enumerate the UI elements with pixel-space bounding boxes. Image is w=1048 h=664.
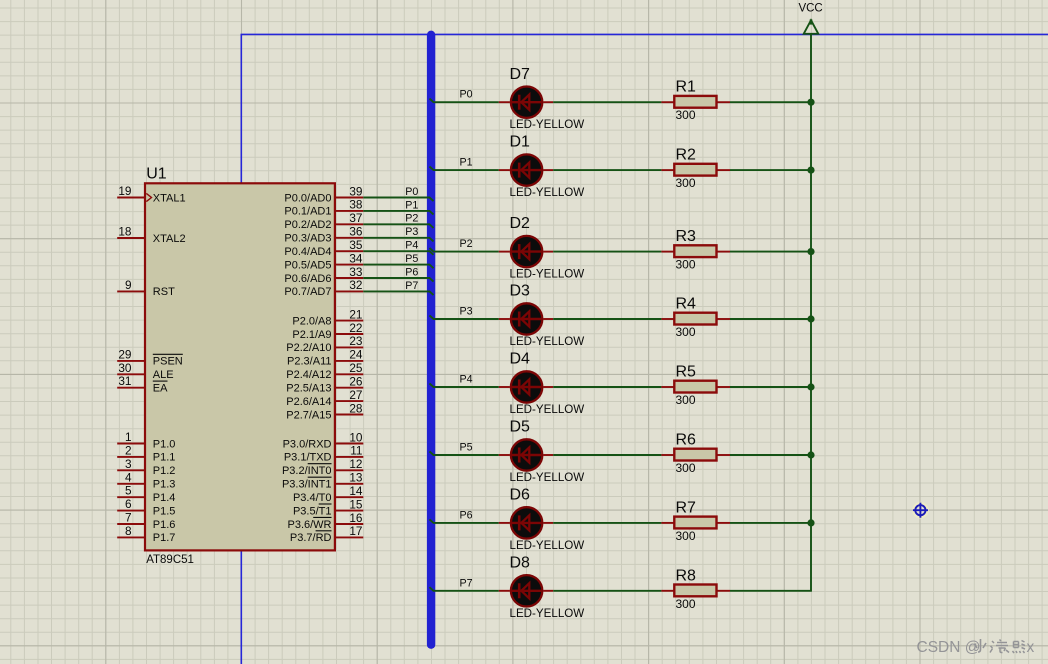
svg-text:P2: P2 (460, 238, 473, 250)
svg-text:22: 22 (349, 321, 362, 335)
pin 18 (XTAL2) (117, 225, 185, 245)
svg-text:R7: R7 (676, 499, 697, 516)
svg-text:P0.3/AD3: P0.3/AD3 (284, 233, 331, 245)
junction dot P1 rail (807, 167, 814, 174)
svg-text:EA: EA (153, 383, 168, 395)
svg-text:31: 31 (118, 374, 131, 388)
svg-text:P3.2/INT0: P3.2/INT0 (282, 465, 332, 477)
svg-text:D4: D4 (510, 351, 531, 368)
pin 35 (P0.4/AD4) (284, 238, 363, 258)
svg-text:P1.7: P1.7 (153, 532, 176, 544)
svg-text:LED-YELLOW: LED-YELLOW (510, 539, 585, 552)
power VCC (798, 3, 822, 34)
svg-text:P5: P5 (405, 253, 418, 265)
svg-text:CSDN @: CSDN @ (917, 639, 981, 656)
pin 16 (P3.6/WR) (287, 511, 363, 531)
svg-text:XTAL2: XTAL2 (153, 233, 186, 245)
LED D3 (499, 283, 584, 348)
svg-text:D3: D3 (510, 283, 531, 300)
wire P7 pin 32 to bus (363, 280, 433, 295)
wire P4 pin 35 to bus (363, 240, 433, 255)
svg-text:300: 300 (676, 393, 696, 407)
svg-text:2: 2 (125, 443, 132, 457)
pin 39 (P0.0/AD0) (284, 184, 363, 204)
svg-text:26: 26 (349, 375, 363, 389)
svg-text:15: 15 (349, 497, 363, 511)
wire D4 to R5 (553, 386, 661, 388)
svg-text:28: 28 (349, 401, 363, 415)
svg-text:P1.3: P1.3 (153, 479, 176, 491)
svg-text:D7: D7 (510, 66, 531, 83)
svg-text:P5: P5 (460, 442, 473, 454)
svg-text:37: 37 (349, 211, 362, 225)
svg-text:P0: P0 (405, 186, 418, 198)
svg-text:16: 16 (349, 511, 363, 525)
pin 21 (P2.0/A8) (292, 307, 363, 327)
wire P5 pin 34 to bus (363, 253, 433, 268)
svg-text:4: 4 (125, 470, 132, 484)
resistor R4 300 (661, 296, 730, 340)
svg-text:P3.4/T0: P3.4/T0 (293, 492, 332, 504)
svg-text:LED-YELLOW: LED-YELLOW (510, 607, 585, 620)
pin 15 (P3.5/T1) (293, 497, 363, 517)
svg-text:7: 7 (125, 511, 132, 525)
junction dot P5 rail (807, 451, 814, 458)
pin 34 (P0.5/AD5) (284, 251, 363, 271)
svg-text:11: 11 (350, 444, 362, 458)
svg-text:P7: P7 (460, 577, 473, 589)
svg-text:R8: R8 (676, 567, 697, 584)
svg-text:P1.6: P1.6 (153, 519, 176, 531)
svg-text:U1: U1 (146, 166, 167, 183)
svg-text:1: 1 (125, 430, 132, 444)
svg-text:32: 32 (349, 278, 362, 292)
svg-text:P1.5: P1.5 (153, 505, 176, 517)
svg-text:300: 300 (676, 258, 696, 272)
svg-text:6: 6 (125, 497, 132, 511)
pin 8 (P1.7) (117, 524, 175, 544)
pin 38 (P0.1/AD1) (284, 198, 363, 218)
svg-text:23: 23 (349, 334, 363, 348)
svg-text:P3.7/RD: P3.7/RD (290, 532, 332, 544)
wire P0 pin 39 to bus (363, 186, 433, 201)
wire D5 to R6 (553, 454, 661, 456)
svg-text:14: 14 (349, 484, 363, 498)
svg-text:R1: R1 (676, 79, 697, 96)
svg-text:9: 9 (125, 278, 132, 292)
watermark (917, 639, 1035, 656)
svg-text:18: 18 (118, 225, 132, 239)
wire D3 to R4 (553, 318, 661, 320)
svg-text:RST: RST (153, 286, 175, 298)
wire P5 bus to D5 (430, 442, 499, 456)
svg-text:D6: D6 (510, 487, 531, 504)
pin 28 (P2.7/A15) (286, 401, 363, 421)
svg-text:R2: R2 (676, 147, 697, 164)
svg-text:P1.0: P1.0 (153, 438, 176, 450)
svg-text:P3: P3 (460, 306, 473, 318)
svg-text:25: 25 (349, 361, 363, 375)
svg-text:D1: D1 (510, 134, 531, 151)
svg-text:P4: P4 (405, 240, 418, 252)
svg-text:P0.6/AD6: P0.6/AD6 (284, 273, 331, 285)
bus P0..P7 (427, 31, 435, 649)
pin 6 (P1.5) (117, 497, 175, 517)
svg-text:P1.2: P1.2 (153, 465, 176, 477)
svg-text:P3.1/TXD: P3.1/TXD (284, 452, 332, 464)
svg-text:P0.1/AD1: P0.1/AD1 (284, 206, 331, 218)
wire D7 to R1 (553, 101, 661, 103)
wire D1 to R2 (553, 169, 661, 171)
pin 5 (P1.4) (117, 484, 175, 504)
svg-text:10: 10 (349, 430, 363, 444)
junction dot P6 rail (807, 519, 814, 526)
pin 37 (P0.2/AD2) (284, 211, 363, 231)
svg-text:R4: R4 (676, 296, 697, 313)
svg-text:D2: D2 (510, 215, 531, 232)
svg-text:300: 300 (676, 176, 696, 190)
resistor R1 300 (661, 79, 730, 123)
pin 1 (P1.0) (117, 430, 175, 450)
svg-text:AT89C51: AT89C51 (146, 554, 194, 566)
wire P6 bus to D6 (430, 509, 499, 523)
pin 2 (P1.1) (117, 443, 175, 463)
svg-text:x: x (1027, 639, 1035, 656)
svg-text:P0.5/AD5: P0.5/AD5 (284, 259, 331, 271)
wire R5 to VCC rail (730, 386, 812, 388)
svg-text:P2.2/A10: P2.2/A10 (286, 342, 331, 354)
svg-text:P1: P1 (405, 199, 418, 211)
wire D8 to R8 (553, 590, 661, 592)
svg-text:P2.7/A15: P2.7/A15 (286, 409, 331, 421)
svg-text:P3: P3 (405, 226, 418, 238)
svg-text:D5: D5 (510, 419, 531, 436)
svg-text:R5: R5 (676, 364, 697, 381)
wire D2 to R3 (553, 251, 661, 253)
resistor R5 300 (661, 364, 730, 408)
pin 10 (P3.0/RXD) (283, 430, 364, 450)
svg-text:33: 33 (349, 265, 363, 279)
resistor R2 300 (661, 147, 730, 191)
wire R2 to VCC rail (730, 169, 812, 171)
svg-text:LED-YELLOW: LED-YELLOW (510, 335, 585, 348)
svg-text:P2.5/A13: P2.5/A13 (286, 383, 331, 395)
wire P0 bus to D7 (430, 89, 499, 103)
pin 9 (RST) (117, 278, 175, 298)
LED D4 (499, 351, 584, 416)
svg-text:29: 29 (118, 347, 131, 361)
svg-text:300: 300 (676, 108, 696, 122)
svg-text:300: 300 (676, 529, 696, 543)
svg-text:17: 17 (349, 524, 362, 538)
pin 32 (P0.7/AD7) (284, 278, 363, 298)
pin 12 (P3.2/INT0) (282, 457, 363, 477)
resistor R3 300 (661, 228, 730, 272)
svg-text:P6: P6 (405, 266, 418, 278)
wire R4 to VCC rail (730, 318, 812, 320)
svg-text:P4: P4 (460, 374, 473, 386)
pin 36 (P0.3/AD3) (284, 225, 363, 245)
svg-text:LED-YELLOW: LED-YELLOW (510, 471, 585, 484)
wire P4 bus to D4 (430, 374, 499, 388)
wire VCC rail (810, 34, 812, 591)
wire R6 to VCC rail (730, 454, 812, 456)
svg-text:P2: P2 (405, 213, 418, 225)
origin marker (913, 503, 928, 518)
svg-text:P3.6/WR: P3.6/WR (287, 519, 331, 531)
wire R1 to VCC rail (730, 101, 812, 103)
svg-text:38: 38 (349, 198, 363, 212)
svg-text:P0: P0 (460, 89, 473, 101)
LED D5 (499, 419, 584, 484)
svg-text:P2.3/A11: P2.3/A11 (287, 356, 331, 368)
svg-text:P2.4/A12: P2.4/A12 (286, 369, 331, 381)
svg-text:27: 27 (349, 388, 362, 402)
svg-text:35: 35 (349, 238, 363, 252)
pin 11 (P3.1/TXD) (284, 444, 363, 464)
wire P3 bus to D3 (430, 306, 499, 320)
IC U1 AT89C51 body (145, 166, 335, 567)
pin 25 (P2.4/A12) (286, 361, 363, 381)
junction dot P0 rail (807, 99, 814, 106)
svg-text:P1.1: P1.1 (153, 452, 176, 464)
LED D2 (499, 215, 584, 280)
svg-text:XTAL1: XTAL1 (153, 192, 186, 204)
pin 33 (P0.6/AD6) (284, 265, 363, 285)
pin 30 (ALE) (117, 361, 173, 381)
resistor R6 300 (661, 432, 730, 476)
svg-text:R6: R6 (676, 432, 697, 449)
wire P1 pin 38 to bus (363, 199, 433, 214)
pin 3 (P1.2) (117, 457, 175, 477)
svg-text:D8: D8 (510, 554, 531, 571)
wire P3 pin 36 to bus (363, 226, 433, 241)
svg-text:P2.1/A9: P2.1/A9 (292, 329, 331, 341)
svg-text:LED-YELLOW: LED-YELLOW (510, 118, 585, 131)
svg-text:8: 8 (125, 524, 132, 538)
LED D8 (499, 554, 584, 619)
wire P6 pin 33 to bus (363, 266, 433, 281)
pin 14 (P3.4/T0) (293, 484, 363, 504)
junction dot P3 rail (807, 315, 814, 322)
LED D1 (499, 134, 584, 199)
wire R7 to VCC rail (730, 522, 812, 524)
LED D7 (499, 66, 584, 131)
junction dot P2 rail (807, 248, 814, 255)
svg-text:24: 24 (349, 348, 363, 362)
wire P2 bus to D2 (430, 238, 499, 252)
junction dot P4 rail (807, 383, 814, 390)
svg-text:300: 300 (676, 461, 696, 475)
pin 4 (P1.3) (117, 470, 175, 490)
svg-text:5: 5 (125, 484, 132, 498)
pin 29 (PSEN) (117, 347, 183, 367)
svg-text:LED-YELLOW: LED-YELLOW (510, 268, 585, 281)
svg-text:12: 12 (349, 457, 362, 471)
wire D6 to R7 (553, 522, 661, 524)
svg-text:300: 300 (676, 325, 696, 339)
svg-text:39: 39 (349, 184, 362, 198)
svg-text:P3.3/INT1: P3.3/INT1 (282, 479, 332, 491)
svg-text:3: 3 (125, 457, 132, 471)
wire P2 pin 37 to bus (363, 213, 433, 228)
svg-text:21: 21 (349, 307, 362, 321)
svg-text:P2.0/A8: P2.0/A8 (292, 315, 331, 327)
svg-text:LED-YELLOW: LED-YELLOW (510, 186, 585, 199)
svg-text:36: 36 (349, 225, 363, 239)
svg-text:30: 30 (118, 361, 132, 375)
svg-text:ALE: ALE (153, 369, 174, 381)
pin 26 (P2.5/A13) (286, 375, 363, 395)
svg-text:13: 13 (349, 471, 363, 485)
svg-text:P2.6/A14: P2.6/A14 (286, 396, 331, 408)
pin 22 (P2.1/A9) (292, 321, 363, 341)
svg-text:P7: P7 (405, 280, 418, 292)
pin 17 (P3.7/RD) (290, 524, 363, 544)
wire P7 bus to D8 (430, 577, 499, 591)
pin 19 (XTAL1) (117, 184, 185, 204)
pin 23 (P2.2/A10) (286, 334, 363, 354)
resistor R7 300 (661, 499, 730, 543)
svg-text:P3.5/T1: P3.5/T1 (293, 505, 332, 517)
resistor R8 300 (661, 567, 730, 611)
pin 24 (P2.3/A11) (287, 348, 363, 368)
pin 13 (P3.3/INT1) (282, 471, 363, 491)
svg-text:P6: P6 (460, 509, 473, 521)
svg-text:P0.0/AD0: P0.0/AD0 (284, 192, 331, 204)
svg-text:P3.0/RXD: P3.0/RXD (283, 438, 332, 450)
LED D6 (499, 487, 584, 552)
svg-text:P1: P1 (460, 157, 473, 169)
svg-text:P0.4/AD4: P0.4/AD4 (284, 246, 331, 258)
svg-text:34: 34 (349, 251, 363, 265)
svg-text:P1.4: P1.4 (153, 492, 176, 504)
wire R8 to VCC rail (730, 590, 812, 592)
pin 7 (P1.6) (117, 511, 175, 531)
svg-text:R3: R3 (676, 228, 697, 245)
pin 31 (EA) (117, 374, 168, 394)
svg-text:VCC: VCC (798, 3, 822, 15)
svg-text:P0.2/AD2: P0.2/AD2 (284, 219, 331, 231)
svg-text:LED-YELLOW: LED-YELLOW (510, 403, 585, 416)
wire R3 to VCC rail (730, 251, 812, 253)
svg-text:PSEN: PSEN (153, 356, 183, 368)
svg-text:300: 300 (676, 597, 696, 611)
svg-text:19: 19 (118, 184, 131, 198)
pin 27 (P2.6/A14) (286, 388, 363, 408)
svg-text:P0.7/AD7: P0.7/AD7 (284, 286, 331, 298)
wire P1 bus to D1 (430, 157, 499, 171)
